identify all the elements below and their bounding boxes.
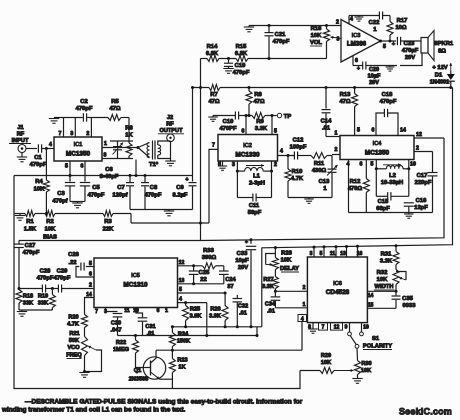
svg-text:3.3K: 3.3K bbox=[380, 259, 393, 265]
svg-text:7: 7 bbox=[322, 325, 325, 331]
resistor R2 10K bbox=[41, 211, 59, 241]
svg-text:IC1: IC1 bbox=[74, 142, 83, 148]
svg-text:4: 4 bbox=[301, 317, 304, 323]
wire speaker return bbox=[353, 53, 422, 66]
svg-text:470pF: 470pF bbox=[76, 106, 93, 112]
svg-text:2: 2 bbox=[86, 131, 89, 137]
IC1 pin 3 stub bbox=[70, 118, 75, 138]
resistor R27 3.3K bbox=[262, 277, 278, 293]
diode D1 1N4001 bbox=[430, 71, 455, 88]
svg-text:POLARITY: POLARITY bbox=[363, 344, 392, 350]
svg-text:R12: R12 bbox=[350, 179, 361, 185]
capacitor C9 8.2uF bbox=[173, 88, 197, 210]
wire T1 secondary to J2 bbox=[158, 141, 171, 145]
svg-text:8Ω: 8Ω bbox=[438, 49, 446, 55]
resistor R15 6.8K bbox=[235, 44, 248, 62]
svg-text:6: 6 bbox=[81, 164, 84, 170]
wire S1 to R30 bbox=[356, 348, 359, 360]
op IC4 MC1350 box bbox=[340, 136, 414, 160]
svg-text:8: 8 bbox=[104, 153, 107, 159]
wire y58 R14 R15 bbox=[201, 57, 327, 60]
op-amp IC3 LM386 bbox=[341, 20, 381, 63]
resistor R31 3.3K bbox=[380, 246, 399, 270]
svg-text:10Ω: 10Ω bbox=[395, 25, 406, 31]
wire C34 to IC6 pin 1 bbox=[275, 302, 307, 308]
ground on IC4 bottom rail bbox=[404, 213, 413, 219]
ground at J1 bbox=[17, 153, 27, 162]
svg-text:C5: C5 bbox=[92, 185, 100, 191]
potentiometer R32 10K WIDTH bbox=[374, 270, 406, 293]
resistor R11 430 ohm bbox=[311, 153, 327, 175]
svg-text:C7: C7 bbox=[117, 185, 124, 191]
IC6 pin 9 stub bbox=[345, 323, 350, 332]
wire bus B left end down bbox=[261, 248, 263, 327]
svg-text:DELAY: DELAY bbox=[280, 266, 299, 272]
resistor R30 10K bbox=[355, 361, 372, 379]
svg-text:VOL: VOL bbox=[310, 40, 322, 46]
svg-text:RF: RF bbox=[166, 122, 174, 128]
svg-text:22K: 22K bbox=[103, 227, 114, 233]
left loop wire bbox=[14, 176, 300, 389]
svg-text:3.3K: 3.3K bbox=[262, 284, 274, 290]
IC2 pin 5 stub bbox=[272, 116, 277, 135]
resistor R23 1K bbox=[169, 350, 187, 388]
svg-text:14: 14 bbox=[368, 293, 374, 299]
IC2 pin 8 ground bbox=[218, 161, 227, 170]
svg-text:winding transformer T1 and coi: winding transformer T1 and coil L1 can b… bbox=[1, 407, 186, 414]
svg-text:6: 6 bbox=[89, 272, 92, 278]
resistor R8 47 ohm bbox=[246, 88, 265, 116]
svg-text:C13: C13 bbox=[319, 179, 330, 185]
svg-text:10K: 10K bbox=[361, 368, 371, 374]
svg-text:47Ω: 47Ω bbox=[339, 99, 350, 105]
capacitor C8 470pF bbox=[141, 176, 162, 210]
svg-text:9: 9 bbox=[345, 325, 348, 331]
svg-text:470PF: 470PF bbox=[219, 126, 237, 132]
wire R27 to IC6 pin 2 bbox=[275, 285, 307, 291]
svg-text:C25: C25 bbox=[199, 270, 210, 276]
svg-text:1K: 1K bbox=[125, 133, 133, 139]
svg-text:R27: R27 bbox=[263, 277, 273, 283]
IC4 pin 12 wire bbox=[414, 132, 444, 138]
capacitor C10 470pF bbox=[219, 112, 238, 133]
coil L1 2-3uH bbox=[237, 164, 271, 187]
svg-text:WIDTH: WIDTH bbox=[375, 284, 394, 290]
svg-text:4.7K: 4.7K bbox=[67, 322, 79, 328]
ground rail below C7 C8 C9 bbox=[130, 210, 193, 216]
capacitor C3 470pF bbox=[52, 183, 75, 205]
svg-text:4: 4 bbox=[49, 142, 52, 148]
resistor R13 47 ohm bbox=[339, 88, 360, 136]
svg-text:3: 3 bbox=[70, 131, 73, 137]
IC4 pin 2 wire to C17 bbox=[414, 146, 433, 152]
svg-text:100pF: 100pF bbox=[290, 145, 307, 151]
svg-text:BIAS: BIAS bbox=[43, 235, 57, 241]
svg-text:J2: J2 bbox=[167, 115, 173, 121]
svg-text:R21: R21 bbox=[69, 331, 79, 337]
leg from T1 rail down bbox=[135, 160, 137, 176]
svg-text:470pF: 470pF bbox=[233, 70, 250, 76]
wire R11 to IC4 pin 2 bbox=[332, 147, 340, 155]
svg-text:10µF: 10µF bbox=[368, 74, 381, 80]
svg-text:R8: R8 bbox=[254, 92, 262, 98]
bottom rail of tuned stage bbox=[110, 158, 133, 160]
svg-text:R33: R33 bbox=[203, 248, 214, 254]
test point TP bbox=[277, 113, 291, 120]
capacitor C33 10uF 20V bbox=[235, 240, 256, 327]
svg-text:FREQ: FREQ bbox=[66, 353, 82, 359]
wire pin4 junction down bbox=[206, 303, 208, 336]
svg-text:C19: C19 bbox=[235, 63, 246, 69]
svg-text:R7: R7 bbox=[210, 92, 217, 98]
IC5 pin 4 wire bbox=[178, 297, 207, 305]
vco base rail y335 bbox=[118, 334, 258, 337]
ground below J2 bbox=[165, 161, 175, 166]
svg-text:R18: R18 bbox=[23, 294, 33, 300]
IC5 pin 14 wire to R20 bbox=[85, 292, 95, 315]
IC6 pin 15 wire bbox=[367, 303, 396, 309]
svg-text:4: 4 bbox=[347, 162, 350, 168]
svg-text:SeekIC.com: SeekIC.com bbox=[399, 407, 452, 417]
svg-text:1.5K: 1.5K bbox=[24, 227, 37, 233]
IC3 output wire pin 5 bbox=[379, 40, 396, 51]
svg-text:50K: 50K bbox=[69, 338, 79, 344]
svg-text:MC1350: MC1350 bbox=[365, 150, 390, 157]
svg-text:13: 13 bbox=[179, 278, 185, 284]
IC2 pin 3 leg bbox=[232, 161, 239, 173]
svg-text:3.9K: 3.9K bbox=[209, 314, 221, 320]
svg-text:C27: C27 bbox=[25, 243, 36, 249]
potentiometer R28 10K DELAY bbox=[266, 248, 299, 277]
IC1 pin 2 stub bbox=[86, 118, 91, 138]
svg-text:1N4001: 1N4001 bbox=[430, 80, 450, 86]
svg-text:IC6: IC6 bbox=[333, 281, 342, 287]
resistor R19 33K bbox=[38, 289, 56, 311]
svg-text:R24: R24 bbox=[178, 332, 189, 338]
svg-text:470pF: 470pF bbox=[37, 276, 54, 282]
capacitor C16 12pF bbox=[404, 198, 428, 213]
IC3 pin 4 stub bbox=[349, 16, 353, 24]
svg-text:470pf: 470pf bbox=[52, 199, 67, 205]
svg-text:6.8K: 6.8K bbox=[206, 51, 219, 57]
svg-text:1K: 1K bbox=[178, 365, 185, 371]
IC6 top pin stubs bbox=[310, 246, 363, 257]
svg-text:1: 1 bbox=[165, 308, 168, 314]
svg-text:5: 5 bbox=[179, 287, 182, 293]
svg-text:C6: C6 bbox=[105, 167, 113, 173]
svg-text:6: 6 bbox=[372, 128, 375, 134]
resistor R17 10 ohm bbox=[387, 16, 407, 42]
capacitor C29 470pF bbox=[54, 269, 71, 293]
connector J2 RF OUTPUT bbox=[158, 115, 184, 142]
svg-text:R15: R15 bbox=[236, 44, 247, 50]
svg-text:R1: R1 bbox=[26, 219, 34, 225]
capacitor C30 .047 bbox=[106, 308, 123, 336]
IC2 pin 6 stub bbox=[242, 114, 248, 135]
wire bias rail to y223 bbox=[130, 214, 132, 224]
svg-text:10: 10 bbox=[410, 162, 416, 168]
svg-text:8: 8 bbox=[218, 162, 221, 168]
svg-text:11: 11 bbox=[330, 251, 336, 257]
svg-text:C17: C17 bbox=[417, 173, 428, 179]
capacitor C11 56pF bbox=[237, 171, 271, 216]
ground below C3 C5 bbox=[70, 202, 85, 208]
svg-text:470pF: 470pF bbox=[30, 162, 47, 168]
resistor R18 33K bbox=[16, 290, 33, 311]
svg-text:150K: 150K bbox=[177, 339, 190, 345]
svg-text:.01: .01 bbox=[322, 126, 331, 132]
svg-text:16: 16 bbox=[357, 251, 363, 257]
svg-text:C34: C34 bbox=[265, 302, 276, 308]
capacitor C18 470pF bbox=[372, 92, 406, 136]
svg-text:OUTPUT: OUTPUT bbox=[160, 128, 184, 134]
svg-text:MC1350: MC1350 bbox=[66, 151, 91, 158]
svg-text:6: 6 bbox=[157, 308, 160, 314]
capacitor C1 470pF bbox=[30, 144, 47, 168]
wire y288 C28 C29 bbox=[18, 287, 95, 290]
svg-text:R2: R2 bbox=[46, 219, 53, 225]
resistor R24 150K bbox=[169, 327, 190, 350]
svg-text:120pf: 120pf bbox=[112, 193, 127, 199]
svg-text:R31: R31 bbox=[381, 252, 392, 258]
svg-text:56pF: 56pF bbox=[248, 210, 262, 216]
wire pin4 to C22 R17 bbox=[349, 15, 390, 17]
svg-text:10: 10 bbox=[363, 325, 369, 331]
IC5 pin 5 wire bbox=[178, 287, 227, 295]
svg-text:C33: C33 bbox=[237, 251, 248, 257]
svg-text:1MEG: 1MEG bbox=[113, 347, 129, 353]
svg-text:R4: R4 bbox=[35, 179, 43, 185]
svg-text:2: 2 bbox=[89, 283, 92, 289]
op IC5 MC1310 box bbox=[94, 258, 178, 308]
svg-text:430Ω: 430Ω bbox=[312, 168, 327, 174]
IC6 pin 14 wire bbox=[367, 291, 396, 299]
svg-text:14: 14 bbox=[86, 292, 92, 298]
svg-text:5: 5 bbox=[65, 164, 68, 170]
wire x257 up bbox=[250, 325, 259, 337]
svg-text:220pF: 220pF bbox=[415, 180, 432, 186]
svg-text:2: 2 bbox=[416, 146, 419, 152]
IC5 bottom pin labels bbox=[95, 308, 168, 315]
svg-text:33K: 33K bbox=[38, 301, 48, 307]
svg-text:R10: R10 bbox=[292, 169, 303, 175]
svg-text:2: 2 bbox=[274, 162, 277, 168]
svg-text:.01: .01 bbox=[239, 311, 247, 317]
svg-text:14: 14 bbox=[400, 128, 406, 134]
svg-text:+: + bbox=[392, 42, 395, 48]
svg-text:L1: L1 bbox=[253, 174, 261, 180]
svg-text:R19: R19 bbox=[38, 294, 48, 300]
capacitor C15 68pF bbox=[376, 169, 409, 212]
IC6 pin 12 box bbox=[331, 323, 343, 331]
IC1 pin 8 wire bbox=[102, 153, 110, 159]
svg-text:5: 5 bbox=[89, 261, 92, 267]
resistor R29 10K bbox=[300, 353, 354, 374]
svg-text:10K: 10K bbox=[377, 277, 388, 283]
svg-text:10K: 10K bbox=[34, 187, 45, 193]
capacitor C19 470pF bbox=[223, 59, 250, 77]
capacitor C14 .01 bbox=[321, 88, 340, 137]
svg-text:C35: C35 bbox=[402, 296, 413, 302]
capacitor C35 .0033 bbox=[392, 291, 417, 309]
svg-text:47Ω: 47Ω bbox=[253, 99, 264, 105]
svg-text:VCO: VCO bbox=[67, 345, 80, 351]
long rail y175 to left loop bbox=[14, 174, 193, 177]
coil L2 10-33uH bbox=[371, 160, 416, 187]
svg-text:R26: R26 bbox=[210, 307, 220, 313]
capacitor C31 .01 bbox=[136, 308, 156, 338]
svg-text:J1: J1 bbox=[17, 125, 23, 131]
svg-text:470pF: 470pF bbox=[54, 276, 71, 282]
svg-text:3.3K: 3.3K bbox=[255, 126, 268, 132]
capacitor C26 .22 bbox=[68, 252, 94, 278]
speaker SPKR1 8 ohm bbox=[421, 31, 454, 61]
svg-text:—DESCRAMBLE GATED-PULSE SIGNAL: —DESCRAMBLE GATED-PULSE SIGNALS using th… bbox=[25, 399, 303, 406]
capacitor C22 1 bbox=[369, 12, 383, 34]
svg-text:22: 22 bbox=[200, 277, 206, 283]
svg-text:47Ω: 47Ω bbox=[109, 106, 120, 112]
svg-text:10µF: 10µF bbox=[235, 258, 249, 264]
svg-text:390Ω: 390Ω bbox=[202, 255, 217, 261]
IC2 MC1330 box bbox=[218, 135, 278, 162]
svg-text:R25: R25 bbox=[190, 307, 200, 313]
svg-text:IC4: IC4 bbox=[373, 141, 382, 147]
resistor R7 47 ohm bbox=[208, 85, 220, 106]
IC6 CD4528 box bbox=[307, 257, 367, 323]
ground below R30 bbox=[352, 379, 362, 384]
IC2 pin 7 wire bbox=[209, 143, 218, 224]
svg-text:2-3µH: 2-3µH bbox=[249, 181, 265, 187]
svg-text:6: 6 bbox=[355, 58, 358, 64]
svg-text:R9: R9 bbox=[256, 119, 264, 125]
svg-text:L2: L2 bbox=[389, 173, 396, 179]
svg-text:CD4528: CD4528 bbox=[326, 289, 350, 296]
svg-text:C29: C29 bbox=[57, 269, 68, 275]
IC1 pin 1 wire bbox=[102, 141, 150, 158]
svg-text:1: 1 bbox=[303, 302, 306, 308]
svg-text:S1: S1 bbox=[372, 336, 380, 342]
svg-text:R17: R17 bbox=[397, 18, 408, 24]
svg-text:IC5: IC5 bbox=[131, 273, 140, 279]
resistor R1 1.5K bbox=[24, 211, 37, 233]
capacitor C34 .01 bbox=[265, 291, 280, 314]
resistor R10 4.7K bbox=[285, 156, 304, 198]
svg-text:0033: 0033 bbox=[403, 303, 417, 309]
svg-text:R16: R16 bbox=[311, 26, 322, 32]
svg-text:470µF: 470µF bbox=[402, 48, 419, 54]
resistor R4 10K bbox=[34, 149, 50, 216]
rail y326 R25 R26 C32 bbox=[171, 325, 262, 328]
capacitor C28 470pF bbox=[37, 269, 54, 293]
svg-text:C30: C30 bbox=[111, 321, 121, 327]
resistor R6 1K bbox=[125, 118, 133, 159]
svg-text:R29: R29 bbox=[321, 353, 331, 359]
svg-text:10K: 10K bbox=[281, 258, 292, 264]
svg-text:C23: C23 bbox=[404, 41, 415, 47]
svg-text:IC2: IC2 bbox=[243, 143, 252, 149]
svg-text:12: 12 bbox=[179, 260, 185, 266]
ground below R21 bbox=[79, 373, 89, 378]
capacitor C21 470pF bbox=[265, 26, 290, 59]
switch S1 POLARITY bbox=[348, 332, 393, 350]
transistor Q1 2N3565 bbox=[129, 350, 166, 382]
svg-text:R14: R14 bbox=[207, 44, 218, 50]
svg-text:6.8K: 6.8K bbox=[235, 51, 248, 57]
svg-text:7: 7 bbox=[59, 131, 62, 137]
ground rail below R18 R19 bbox=[17, 310, 53, 316]
svg-text:R5: R5 bbox=[111, 99, 119, 105]
svg-text:4: 4 bbox=[280, 149, 283, 155]
svg-text:20V: 20V bbox=[238, 265, 248, 271]
trimmer capacitor C13 1 bbox=[319, 156, 338, 198]
svg-text:3.9K: 3.9K bbox=[190, 314, 202, 320]
svg-text:C2: C2 bbox=[80, 99, 87, 105]
svg-text:470pF: 470pF bbox=[380, 99, 397, 105]
svg-text:MC1330: MC1330 bbox=[235, 152, 260, 159]
resistor R26 3.9K bbox=[209, 293, 228, 327]
wire y223 bbox=[131, 222, 209, 225]
svg-text:15: 15 bbox=[368, 303, 374, 309]
svg-text:7: 7 bbox=[212, 143, 215, 149]
bottom rail IC4 bbox=[349, 212, 433, 214]
svg-text:.047: .047 bbox=[111, 328, 122, 334]
wire T1 secondary bottom to ground bbox=[158, 142, 171, 161]
svg-text:10K: 10K bbox=[45, 227, 56, 233]
svg-text:RF: RF bbox=[17, 132, 25, 138]
svg-text:4.7K: 4.7K bbox=[291, 176, 304, 182]
svg-text:2: 2 bbox=[303, 285, 306, 291]
svg-text:5: 5 bbox=[357, 128, 360, 134]
IC3 pin 3 wire bbox=[337, 37, 340, 43]
+12V supply arrow bbox=[432, 63, 452, 71]
svg-text:+: + bbox=[357, 66, 360, 72]
svg-text:C16: C16 bbox=[416, 198, 427, 204]
resistor R14 6.8K bbox=[206, 44, 219, 62]
svg-text:+: + bbox=[185, 177, 188, 183]
IC5 pin 2 label bbox=[89, 283, 92, 289]
svg-text:11: 11 bbox=[124, 308, 130, 314]
svg-text:LM386: LM386 bbox=[347, 41, 367, 48]
svg-text:R32: R32 bbox=[377, 270, 388, 276]
capacitor C25 22 bbox=[189, 266, 210, 284]
IC3 pin 6 stub bbox=[353, 56, 358, 66]
svg-text:C15: C15 bbox=[378, 199, 389, 205]
svg-text:IC3: IC3 bbox=[352, 33, 361, 39]
svg-text:C3: C3 bbox=[57, 191, 65, 197]
svg-text:470pF: 470pF bbox=[145, 193, 162, 199]
svg-text:8.2µF: 8.2µF bbox=[173, 193, 188, 199]
resistor R5 47 ohm bbox=[108, 99, 121, 121]
svg-text:7: 7 bbox=[95, 309, 98, 315]
svg-text:470Ω: 470Ω bbox=[348, 186, 363, 192]
svg-text:5: 5 bbox=[320, 251, 323, 257]
wire to IC6 pin 4 bbox=[298, 315, 307, 351]
svg-text:R28: R28 bbox=[281, 251, 292, 257]
svg-text:R23: R23 bbox=[177, 358, 187, 364]
resistor R22 1MEG bbox=[113, 336, 144, 368]
trimmer capacitor C6 3-40pF bbox=[100, 141, 123, 180]
svg-text:3: 3 bbox=[310, 251, 313, 257]
svg-text:C14: C14 bbox=[321, 119, 332, 125]
svg-text:C28: C28 bbox=[40, 269, 51, 275]
svg-text:+ 12V: + 12V bbox=[432, 65, 447, 71]
svg-text:T1*: T1* bbox=[149, 162, 159, 168]
resistor R25 3.9K bbox=[183, 303, 202, 327]
svg-text:R6: R6 bbox=[125, 126, 133, 132]
ground on pin4 wire bbox=[355, 16, 364, 22]
connector J1 RF INPUT bbox=[9, 125, 31, 153]
svg-text:2: 2 bbox=[336, 20, 339, 26]
